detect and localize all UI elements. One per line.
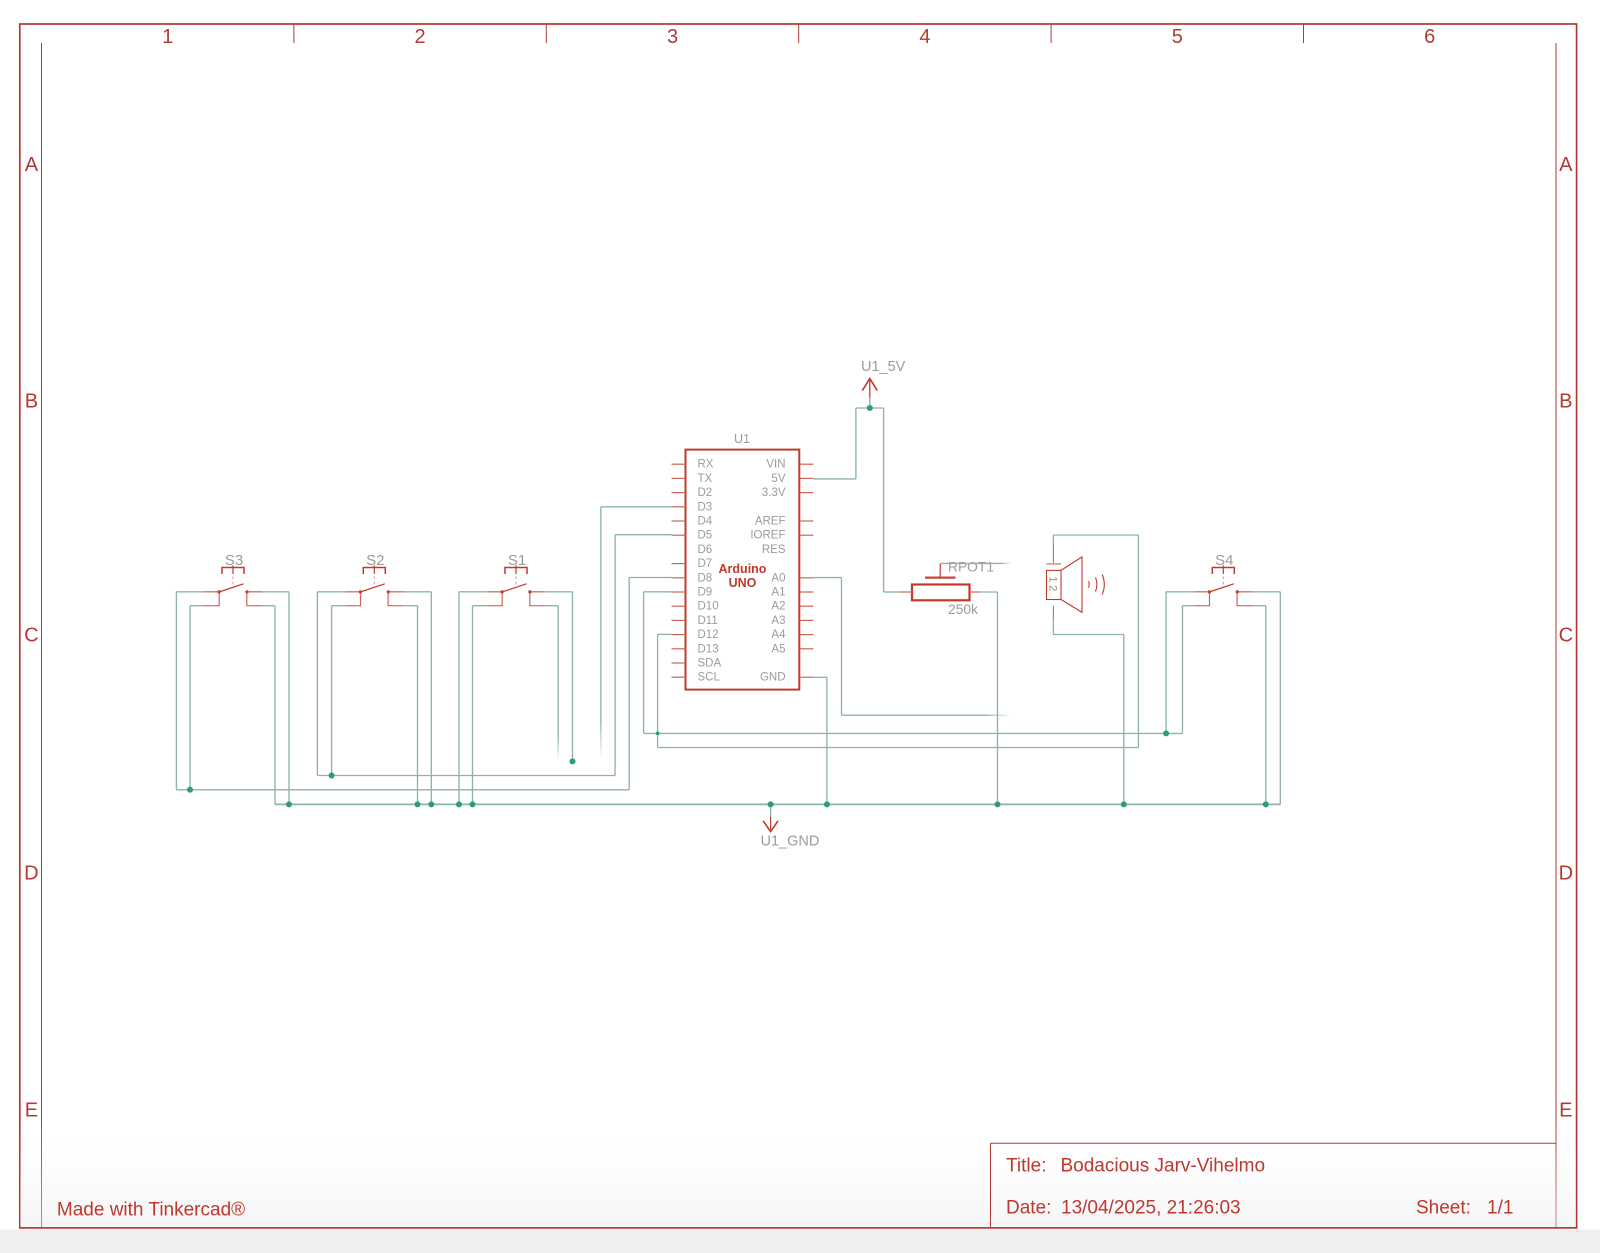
svg-text:B: B	[25, 391, 38, 413]
junction RPOT1 right on bus	[995, 801, 1001, 807]
wire S4 top-right to GND bus corner	[1252, 592, 1280, 805]
svg-text:GND: GND	[760, 672, 786, 684]
svg-text:A4: A4	[771, 629, 786, 641]
svg-text:2: 2	[1047, 585, 1059, 591]
wire S1 bottom-right dangling	[545, 606, 558, 760]
svg-text:D11: D11	[698, 615, 718, 627]
wire 5V net: junction horizontal	[856, 407, 884, 409]
svg-text:D9: D9	[698, 587, 713, 599]
svg-text:SCL: SCL	[698, 672, 721, 684]
column numbers	[162, 26, 1435, 48]
svg-text:AREF: AREF	[755, 516, 786, 528]
title block	[991, 1143, 1557, 1228]
junction S1 top-left on bus	[456, 801, 462, 807]
junction GND arrow on bus	[768, 801, 774, 807]
wire 5V net: arrow stem to junction	[869, 398, 871, 409]
wire S3 top-right to GND bus	[262, 592, 289, 805]
junction S4 bottom-right on bus	[1263, 801, 1269, 807]
svg-text:1/1: 1/1	[1487, 1198, 1513, 1219]
wire speaker pin2 to GND bus	[1053, 618, 1123, 804]
U1 left pins	[672, 459, 722, 684]
switch switch S4 symbol	[1194, 565, 1252, 605]
junction S1-D3 node	[570, 758, 576, 764]
wire S1 top-left to GND bus	[459, 592, 487, 805]
wire S2 bottom-left drop	[332, 606, 346, 776]
svg-text:Made with Tinkercad®: Made with Tinkercad®	[57, 1200, 245, 1221]
svg-text:D5: D5	[698, 530, 713, 542]
svg-text:Title:: Title:	[1006, 1156, 1046, 1177]
wire 5V net: left branch down to 5V pin	[813, 408, 856, 479]
svg-text:3: 3	[667, 26, 678, 48]
wire D12 to speaker line L3	[658, 634, 1139, 747]
svg-text:RX: RX	[698, 459, 714, 471]
resistor RPOT1 potentiometer body	[899, 563, 979, 600]
wire S3 bottom-left drop	[190, 606, 204, 790]
svg-text:250k: 250k	[948, 602, 978, 617]
wire S4 bottom-right to GND bus	[1252, 606, 1266, 805]
wire S2 bottom-right to GND bus	[403, 606, 417, 805]
wire S2 top-left loop to D5	[317, 535, 671, 776]
junction S2 net	[329, 773, 335, 779]
svg-text:D2: D2	[698, 487, 713, 499]
svg-text:A5: A5	[771, 643, 785, 655]
wire 5V net: right branch down to RPOT1 left	[884, 408, 900, 592]
svg-text:D: D	[24, 863, 38, 885]
svg-text:A2: A2	[771, 601, 785, 613]
wire S4 bottom-left to L2 end	[1183, 606, 1195, 734]
wire S3 bottom-right to GND bus corner	[262, 606, 275, 805]
svg-text:C: C	[1559, 625, 1573, 647]
svg-text:D13: D13	[698, 643, 719, 655]
svg-text:D12: D12	[698, 629, 719, 641]
wire S1 top-right to D3 node	[545, 592, 573, 762]
svg-text:B: B	[1559, 391, 1572, 413]
svg-text:3.3V: 3.3V	[762, 487, 786, 499]
junction S1 bottom-left on bus	[470, 801, 476, 807]
junction S3 right on bus	[286, 801, 292, 807]
svg-text:U1: U1	[734, 432, 750, 446]
wire speaker pin1 to L3	[1053, 535, 1138, 748]
switch switch S3 symbol	[204, 565, 262, 605]
wire S4 top-left to L2	[1166, 592, 1194, 734]
ground symbol U1_GND	[763, 804, 778, 831]
svg-text:D: D	[1559, 863, 1573, 885]
op-amp U1 Arduino UNO body	[686, 450, 800, 690]
svg-text:D6: D6	[698, 544, 713, 556]
svg-text:C: C	[24, 625, 38, 647]
wire RPOT1 right terminal to GND bus	[980, 592, 998, 804]
svg-text:A1: A1	[771, 587, 785, 599]
wire U1 GND pin to bus	[813, 677, 827, 804]
wire A0 to L1 dangling	[813, 578, 1011, 716]
speaker sound waves	[1089, 575, 1105, 595]
svg-text:5: 5	[1172, 26, 1183, 48]
svg-text:S1: S1	[508, 552, 526, 569]
svg-text:D8: D8	[698, 572, 713, 584]
junction S3 net	[187, 787, 193, 793]
junction S4 top-left on L2	[1163, 730, 1169, 736]
svg-text:RES: RES	[762, 544, 786, 556]
wire D9 to L2 line	[644, 592, 1183, 734]
wire D8 to S3 line	[629, 578, 671, 790]
svg-text:Bodacious Jarv-Vihelmo: Bodacious Jarv-Vihelmo	[1061, 1156, 1266, 1177]
wire S2 top-right to GND bus	[403, 592, 431, 805]
svg-text:5V: 5V	[771, 473, 785, 485]
svg-text:S2: S2	[366, 552, 384, 569]
wire S3 top-left to D8 line	[176, 592, 629, 790]
junction S2 top-right on bus	[428, 801, 434, 807]
power symbol U1_5V	[862, 379, 877, 398]
svg-text:A: A	[1559, 154, 1573, 176]
svg-text:U1_GND: U1_GND	[761, 834, 820, 850]
svg-text:TX: TX	[698, 473, 713, 485]
svg-text:E: E	[25, 1100, 38, 1122]
svg-text:UNO: UNO	[729, 576, 757, 590]
svg-text:A3: A3	[771, 615, 785, 627]
wire RPOT1 wiper dangling	[940, 562, 1011, 564]
wire GND bus horizontal	[275, 803, 1280, 805]
svg-text:SDA: SDA	[698, 658, 722, 670]
row letters	[24, 154, 1573, 1121]
svg-text:Date:: Date:	[1006, 1198, 1051, 1219]
svg-text:A: A	[25, 154, 39, 176]
switch switch S1 symbol	[487, 565, 545, 605]
svg-text:Sheet:: Sheet:	[1416, 1198, 1471, 1219]
wire D3 dangling drop	[601, 507, 672, 759]
svg-text:D7: D7	[698, 558, 713, 570]
svg-text:A0: A0	[771, 572, 785, 584]
speaker piezo body	[1046, 544, 1082, 619]
svg-text:13/04/2025, 21:26:03: 13/04/2025, 21:26:03	[1061, 1198, 1241, 1219]
svg-text:D3: D3	[698, 501, 713, 513]
svg-text:E: E	[1559, 1100, 1572, 1122]
U1 right pins	[750, 459, 813, 684]
junction S2 bottom-right on bus	[415, 801, 421, 807]
svg-text:4: 4	[919, 26, 930, 48]
svg-text:Arduino: Arduino	[719, 562, 767, 576]
svg-text:RPOT1: RPOT1	[948, 560, 994, 575]
svg-text:S3: S3	[225, 552, 243, 569]
junction U1 GND pin on bus	[824, 801, 830, 807]
svg-text:6: 6	[1424, 26, 1435, 48]
switch switch S2 symbol	[345, 565, 403, 605]
svg-text:IOREF: IOREF	[750, 530, 785, 542]
junction 5V node	[867, 405, 873, 411]
wire S1 bottom-left to GND bus	[473, 606, 488, 805]
svg-text:S4: S4	[1215, 552, 1233, 569]
svg-text:2: 2	[415, 26, 426, 48]
svg-text:VIN: VIN	[766, 459, 785, 471]
svg-text:D4: D4	[698, 516, 713, 528]
svg-text:1: 1	[1047, 576, 1059, 582]
junction speaker pin2 on bus	[1121, 801, 1127, 807]
svg-text:D10: D10	[698, 601, 719, 613]
svg-text:U1_5V: U1_5V	[861, 359, 906, 375]
junction D12 crossing L2	[656, 732, 660, 736]
svg-text:1: 1	[162, 26, 173, 48]
